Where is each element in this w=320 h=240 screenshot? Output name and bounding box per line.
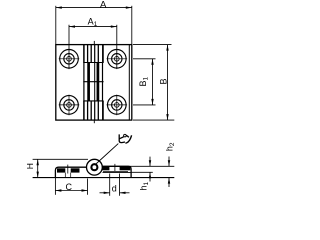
dimension d extension lines [109, 174, 111, 196]
side view ground line [33, 177, 175, 179]
dimension C extension lines [54, 178, 56, 195]
step level extension line (h1 ref) [132, 171, 153, 173]
knuckle segment division lines [83, 62, 103, 64]
left leaf section hatch block right [71, 168, 80, 172]
dimension d line + outside arrows [100, 192, 110, 194]
right leaf section hatch block left [102, 167, 109, 170]
svg-text:A: A [100, 0, 107, 10]
svg-text:C: C [66, 182, 73, 192]
hinge plate front view outline [56, 45, 132, 121]
counterbored hole 1 [60, 50, 79, 69]
knuckle barrel [87, 159, 103, 175]
left leaf hole hidden walls [64, 173, 66, 177]
svg-text:d: d [112, 184, 117, 194]
dimension B1 line [152, 59, 154, 105]
left leaf section hatch block left [57, 168, 65, 172]
knuckle band curl lines: outer segments [83, 45, 85, 63]
dimension h2 arrows (outside) [168, 157, 170, 167]
dimension h1 arrows (outside) [149, 157, 151, 167]
right leaf top surface + extension line [102, 165, 174, 167]
dimension H line [37, 159, 39, 177]
dimension B extension lines [133, 44, 172, 46]
counterbored hole 4 [108, 96, 127, 115]
dimension B1 extension lines [133, 58, 156, 60]
barrel top extension line (H) [33, 158, 88, 160]
left hole centerline tick [67, 165, 69, 174]
right hole centerline tick [114, 164, 116, 172]
counterbored hole 3 [60, 96, 79, 115]
dimension A1 line [69, 26, 117, 28]
right leaf bottom line [103, 171, 132, 173]
pin label katakana N [126, 136, 129, 138]
right leaf section hatch block right [120, 167, 131, 170]
dimension A extension lines [55, 6, 57, 45]
pin leader line [96, 144, 118, 164]
right leaf outline [102, 166, 131, 177]
dimension A1 extension lines (hole centerlines up) [68, 25, 70, 69]
knuckle band curl lines: middle segments [83, 63, 85, 101]
dimension A line [56, 7, 132, 9]
plate right edge inner chamfer line [128, 45, 130, 121]
dimension B line [167, 45, 169, 121]
pin centerline ticks [93, 41, 95, 45]
svg-text:H: H [25, 163, 35, 169]
hinge pin [91, 164, 97, 170]
right leaf counterbore ceiling line [103, 170, 128, 172]
svg-text:B: B [159, 78, 169, 84]
pin label katakana PI [119, 134, 125, 142]
counterbored hole 2 [108, 50, 127, 69]
dimension C line [55, 190, 87, 192]
left leaf outline [55, 167, 86, 177]
